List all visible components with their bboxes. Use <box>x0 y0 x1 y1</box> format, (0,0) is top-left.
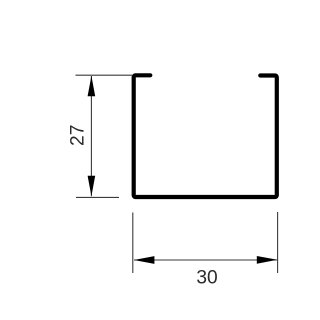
svg-text:27: 27 <box>67 125 88 146</box>
svg-text:30: 30 <box>196 268 217 289</box>
